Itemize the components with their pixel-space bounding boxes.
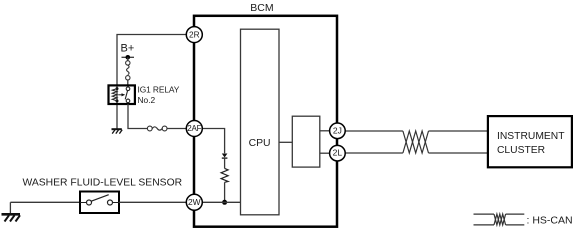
wire pin 2L to twisted pair bbox=[345, 152, 403, 154]
ground under relay coil bbox=[112, 128, 122, 130]
diode D1 bbox=[222, 154, 228, 158]
wire pin 2W to CPU bbox=[203, 201, 241, 203]
relay coil zigzag bbox=[112, 89, 117, 101]
sensor internal right lead bbox=[113, 202, 120, 204]
connector C1 wavy element bbox=[152, 127, 162, 130]
fuse F1 wavy element bbox=[127, 65, 130, 75]
wire twisted pair to instrument cluster top bbox=[429, 130, 488, 132]
legend right top line bbox=[506, 213, 525, 215]
instrument cluster box bbox=[488, 116, 572, 167]
svg-text:2J: 2J bbox=[333, 125, 342, 135]
pin 2R bbox=[186, 27, 202, 43]
wire ground to washer sensor box bbox=[10, 201, 80, 203]
relay switch top contact circle bbox=[126, 87, 130, 91]
wire fuse to relay box bbox=[127, 80, 129, 86]
BCM box bbox=[194, 16, 337, 227]
pin 2AF bbox=[186, 121, 202, 137]
legend right bottom line bbox=[506, 224, 525, 226]
CPU box bbox=[241, 29, 280, 215]
relay coil top junction dot bbox=[116, 87, 119, 90]
pin 2J bbox=[330, 123, 346, 139]
node B+ terminal tick bbox=[122, 56, 135, 58]
junction dot on 2W net bbox=[222, 200, 227, 205]
sensor left contact circle bbox=[87, 200, 92, 205]
sensor right contact circle bbox=[108, 200, 113, 205]
connector C1 right circle bbox=[162, 126, 167, 131]
relay coil bottom junction dot bbox=[116, 99, 119, 102]
resistor R1 zigzag bbox=[221, 168, 228, 182]
sensor internal left lead bbox=[80, 202, 87, 204]
svg-text:2AF: 2AF bbox=[187, 124, 201, 133]
wire diode to resistor bbox=[224, 158, 226, 168]
legend twisted pair symbol top line bbox=[474, 213, 495, 215]
svg-text:WASHER FLUID-LEVEL SENSOR: WASHER FLUID-LEVEL SENSOR bbox=[23, 178, 183, 189]
svg-text:CPU: CPU bbox=[249, 138, 271, 149]
fuse F1 bottom circle bbox=[126, 76, 130, 80]
ground washer sensor side bbox=[9, 202, 11, 213]
wire resistor down to 2W net bbox=[224, 182, 226, 202]
svg-text:2L: 2L bbox=[333, 148, 343, 158]
wire pin 2AF into BCM to diode/resistor branch bbox=[203, 129, 225, 154]
connector C1 left circle bbox=[147, 126, 152, 131]
wire sensor box to pin 2W bbox=[119, 201, 187, 203]
node B+ junction dot bbox=[126, 55, 131, 60]
relay actuation arrow bbox=[118, 94, 122, 96]
svg-text:No.2: No.2 bbox=[138, 95, 156, 105]
CAN transceiver box U1 bbox=[292, 116, 320, 167]
pin 2W bbox=[186, 194, 202, 210]
wire transceiver to pin 2J bbox=[320, 130, 330, 132]
wire pin 2J to twisted pair bbox=[345, 130, 403, 132]
relay IG1 No.2 box bbox=[109, 85, 135, 104]
legend twist line A bbox=[494, 214, 506, 225]
svg-text:B+: B+ bbox=[121, 42, 135, 54]
wire CPU to CAN transceiver box bbox=[279, 141, 292, 143]
svg-text:BCM: BCM bbox=[250, 2, 273, 14]
svg-text:2R: 2R bbox=[189, 29, 200, 39]
svg-text:: HS-CAN: : HS-CAN bbox=[527, 214, 573, 226]
svg-text:2W: 2W bbox=[188, 197, 201, 207]
svg-text:CLUSTER: CLUSTER bbox=[497, 145, 545, 156]
wire relay switch to inline connector bbox=[128, 104, 147, 129]
relay switch bottom contact circle bbox=[126, 99, 130, 103]
wire transceiver to pin 2L bbox=[320, 152, 330, 154]
pin 2L bbox=[330, 145, 346, 161]
svg-text:IG1 RELAY: IG1 RELAY bbox=[138, 84, 180, 94]
wire 2R to B+ column corner and down through relay coil to ground bbox=[117, 35, 187, 130]
wire twisted pair to instrument cluster bottom bbox=[429, 152, 488, 154]
wire connector to pin 2AF bbox=[167, 128, 187, 130]
sensor switch blade bbox=[91, 195, 109, 202]
legend twisted pair symbol bottom line bbox=[474, 224, 495, 226]
legend twist line B bbox=[494, 214, 506, 225]
twisted pair HS-CAN line A bbox=[403, 131, 429, 153]
svg-text:INSTRUMENT: INSTRUMENT bbox=[497, 131, 565, 142]
wire B+ dot down to fuse bbox=[127, 57, 129, 61]
relay switch blade bbox=[125, 91, 127, 100]
twisted pair HS-CAN line B bbox=[403, 131, 429, 153]
washer fluid-level sensor box bbox=[80, 192, 119, 214]
fuse F1 top circle bbox=[126, 61, 130, 65]
